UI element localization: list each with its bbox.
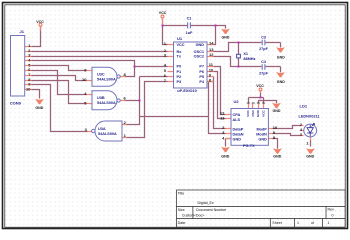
svg-text:OSC1: OSC1: [194, 50, 204, 54]
svg-text:U1: U1: [177, 36, 183, 41]
svg-text:GND: GND: [233, 138, 242, 142]
svg-text:GND: GND: [306, 155, 314, 159]
svg-text:C3: C3: [261, 36, 266, 40]
svg-text:P7: P7: [199, 65, 204, 69]
svg-text:P6: P6: [199, 70, 204, 74]
svg-text:0: 0: [332, 214, 334, 218]
svg-text:P2: P2: [177, 75, 182, 79]
svg-text:J1: J1: [20, 29, 25, 34]
svg-text:<Doc>: <Doc>: [194, 213, 205, 217]
svg-text:OSC2: OSC2: [194, 55, 204, 59]
svg-text:GND: GND: [273, 155, 281, 159]
svg-text:GND: GND: [277, 56, 285, 60]
svg-text:GND: GND: [222, 35, 230, 39]
svg-text:88MHz: 88MHz: [243, 57, 255, 61]
svg-text:1: 1: [297, 221, 299, 225]
svg-text:Digital_Ex: Digital_Ex: [198, 201, 214, 205]
svg-text:ModP: ModP: [256, 128, 267, 132]
svg-text:Date:: Date:: [178, 221, 187, 225]
svg-text:VCC: VCC: [177, 43, 185, 47]
svg-text:DataP: DataP: [233, 128, 244, 132]
svg-text:LEDNX0211: LEDNX0211: [299, 115, 320, 119]
svg-text:10: 10: [26, 86, 31, 91]
svg-text:uP-EXIO10: uP-EXIO10: [177, 89, 196, 93]
svg-text:VCC: VCC: [246, 109, 250, 116]
svg-text:Custom: Custom: [182, 213, 194, 217]
svg-text:PG-TX: PG-TX: [243, 144, 255, 148]
svg-text:10: 10: [82, 77, 87, 82]
svg-text:Document Number: Document Number: [196, 208, 227, 212]
svg-text:Sheet: Sheet: [272, 221, 281, 225]
svg-text:Title: Title: [178, 191, 185, 195]
svg-text:P3: P3: [177, 80, 182, 84]
svg-text:1uF: 1uF: [186, 31, 193, 35]
svg-text:X1: X1: [243, 52, 248, 56]
svg-text:U3B: U3B: [97, 96, 105, 100]
svg-text:54ALS00A: 54ALS00A: [97, 101, 116, 105]
svg-text:P1: P1: [177, 70, 182, 74]
svg-text:Size: Size: [178, 208, 185, 212]
svg-text:1: 1: [328, 221, 330, 225]
svg-text:U2: U2: [234, 99, 240, 104]
svg-text:GND: GND: [35, 106, 43, 110]
svg-text:C1: C1: [187, 17, 192, 21]
svg-text:VCC: VCC: [256, 84, 264, 88]
svg-text:27pF: 27pF: [259, 71, 269, 75]
svg-text:CON9: CON9: [10, 101, 22, 106]
svg-text:P0: P0: [177, 65, 182, 69]
svg-text:U3C: U3C: [97, 73, 105, 77]
svg-text:ALS: ALS: [233, 118, 241, 122]
svg-text:27pF: 27pF: [259, 47, 269, 51]
svg-text:GND: GND: [196, 43, 205, 47]
svg-text:54ALS00A: 54ALS00A: [97, 77, 116, 81]
svg-text:54ALS00A: 54ALS00A: [98, 132, 117, 136]
svg-text:GND: GND: [273, 109, 281, 113]
svg-text:VCC: VCC: [261, 109, 265, 116]
svg-text:GND: GND: [277, 80, 285, 84]
svg-text:VCC: VCC: [159, 11, 167, 15]
svg-text:14: 14: [209, 40, 214, 45]
svg-text:12: 12: [209, 52, 214, 57]
svg-text:GND: GND: [221, 154, 229, 158]
svg-text:Rev: Rev: [328, 208, 335, 212]
svg-text:VCC: VCC: [36, 20, 44, 24]
svg-text:GND: GND: [256, 109, 260, 117]
svg-text:ModN: ModN: [256, 132, 267, 136]
svg-text:P5: P5: [199, 75, 204, 79]
svg-text:U3A: U3A: [98, 127, 106, 131]
svg-text:DataN: DataN: [233, 132, 244, 136]
svg-text:CPA: CPA: [233, 113, 241, 117]
svg-text:GND: GND: [258, 138, 267, 142]
svg-text:PAD: PAD: [251, 109, 255, 116]
svg-text:LD1: LD1: [300, 104, 308, 109]
svg-text:of: of: [311, 221, 314, 225]
